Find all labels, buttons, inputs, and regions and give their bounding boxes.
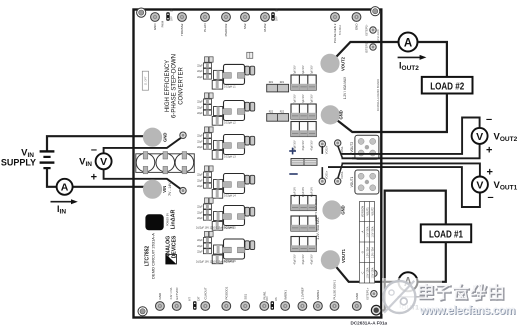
phase 3 input caps stack	[203, 133, 211, 149]
svg-text:–: –	[486, 114, 492, 126]
svg-text:22µF: 22µF	[197, 217, 203, 220]
svg-text:OFF: OFF	[266, 296, 269, 301]
inductor L3	[222, 135, 245, 159]
svg-text:-C: -C	[361, 271, 364, 274]
svg-text:ON: ON	[275, 297, 278, 301]
resistor bank R22	[267, 110, 289, 121]
svg-text:22µF: 22µF	[197, 101, 203, 104]
logo POWERED BY LINEAR	[166, 210, 176, 230]
power stage MOSFET Q6A	[214, 245, 223, 254]
ammeter IIN	[57, 179, 73, 195]
svg-text:PULSE GEN 2: PULSE GEN 2	[333, 23, 337, 43]
wire VOSNS1- stub to sense line	[338, 163, 343, 178]
power stage MOSFET Q3B	[212, 151, 223, 160]
svg-text:47µF/16V: 47µF/16V	[303, 140, 305, 150]
capacitor bank labels	[295, 187, 314, 197]
arrow IOUT1 washed by watermark	[398, 294, 427, 299]
capacitor CIN2 electrolytic	[156, 152, 175, 174]
turret VIN sense VIN	[180, 187, 186, 193]
phase 6 small caps above	[205, 231, 214, 236]
power stage MOSFET Q2B	[212, 117, 223, 126]
svg-text:47µF/16V: 47µF/16V	[311, 140, 313, 150]
svg-text:3.3V / 2.5A: 3.3V / 2.5A	[170, 287, 173, 299]
svg-text:22µF: 22µF	[197, 239, 203, 242]
svg-text:1.2VREF: 1.2VREF	[301, 287, 305, 299]
svg-text:1.5V / 25A: 1.5V / 25A	[366, 267, 369, 278]
wire LOAD 2 return to board GND terminal	[330, 94, 447, 133]
label VOUT1 meter with polarity	[487, 167, 518, 204]
wire VOSNS1+ stub to sense line	[321, 167, 323, 179]
svg-text:IMON2: IMON2	[316, 290, 320, 300]
svg-text:GND: GND	[339, 110, 344, 119]
svg-text:INT: INT	[188, 297, 191, 301]
output capacitor bank row y=236.5	[291, 237, 316, 252]
svg-text:22µF: 22µF	[197, 206, 203, 209]
svg-text:2mm JACK: 2mm JACK	[377, 29, 380, 41]
resistor bank R21	[267, 81, 289, 92]
terminal VIN	[143, 180, 162, 199]
svg-text:-A: -A	[361, 230, 364, 233]
power stage MOSFET Q5A	[214, 212, 223, 221]
svg-text:A: A	[404, 37, 412, 49]
watermark chinese text shao	[473, 286, 487, 301]
svg-text:IMON1: IMON1	[283, 290, 287, 300]
test point CLKOUT bottom	[201, 302, 210, 311]
test point TRK/SS2 top	[178, 13, 187, 22]
wire sense lines over jack	[352, 154, 380, 158]
power stage MOSFET Q1A	[214, 70, 223, 79]
svg-text:22µF: 22µF	[197, 185, 203, 188]
mounting hole bottom-right GND post	[371, 305, 381, 315]
phase 4 small caps above	[205, 166, 214, 171]
watermark halo	[382, 278, 442, 314]
svg-text:22µF: 22µF	[197, 65, 203, 68]
phase 1 small caps above	[205, 57, 214, 62]
wire board VOUT2 terminal to ammeter IOUT2	[330, 42, 399, 63]
bulk capacitor bank COUT	[291, 159, 317, 166]
inductor L2	[222, 101, 245, 125]
test point RUN1 bottom	[260, 302, 269, 311]
power stage MOSFET Q5B	[212, 222, 223, 231]
phase 3 small caps above	[205, 127, 214, 132]
svg-text:DEMO CIRCUIT 2631A-A: DEMO CIRCUIT 2631A-A	[150, 233, 155, 279]
watermark logo circle	[383, 281, 415, 313]
LOAD #1 box	[421, 224, 471, 242]
svg-text:47µF/16V: 47µF/16V	[311, 65, 313, 75]
input capacitor bank silk frame	[136, 154, 195, 173]
test point 1.2VREF bottom	[298, 302, 307, 311]
jumper PWM mode	[166, 12, 169, 21]
svg-text:22µF: 22µF	[197, 174, 203, 177]
svg-text:R22: R22	[280, 110, 285, 113]
svg-text:22µF: 22µF	[197, 250, 203, 253]
svg-text:SS1: SS1	[243, 293, 247, 299]
label VIN terminal	[162, 182, 172, 196]
wire VIN supply negative through ammeter to board VIN terminal	[47, 168, 153, 186]
test point IMON1 bottom	[281, 302, 290, 311]
svg-text:VOUT1 60A MAX: VOUT1 60A MAX	[314, 199, 318, 221]
inductor L6	[222, 239, 245, 263]
mounting hole top-right	[371, 7, 380, 16]
label VIN meter with polarity	[79, 144, 97, 184]
svg-text:7V - 14V: 7V - 14V	[168, 182, 172, 196]
svg-text:0.15µH L1: 0.15µH L1	[224, 86, 236, 89]
svg-text:-B: -B	[361, 251, 364, 254]
test point IMON2 bottom	[314, 302, 323, 311]
svg-text:47µF/16V: 47µF/16V	[295, 65, 297, 75]
svg-text:22µF: 22µF	[197, 179, 203, 182]
svg-text:50% MAX: 50% MAX	[339, 24, 342, 35]
svg-text:LOAD #2: LOAD #2	[430, 81, 464, 92]
svg-text:R22: R22	[269, 110, 274, 113]
label ISTEP2 turrets	[365, 24, 369, 53]
output capacitor bank row y=195.5	[291, 196, 316, 211]
svg-text:GND: GND	[341, 205, 346, 214]
arrow IIN	[51, 199, 78, 204]
svg-text:V: V	[476, 179, 483, 191]
power stage MOSFET Q4B	[212, 190, 223, 199]
phase 3 cap value labels	[197, 135, 203, 149]
svg-text:R21: R21	[269, 81, 274, 84]
svg-text:ISTEP1+: ISTEP1+	[365, 287, 369, 299]
svg-text:1.0V / 50A: 1.0V / 50A	[371, 226, 374, 237]
terminal GND (out2 return)	[321, 105, 340, 124]
svg-text:OFF: OFF	[276, 16, 279, 21]
svg-text:1.5V / 25A: 1.5V / 25A	[371, 267, 374, 278]
phase 5 output caps pair	[245, 207, 255, 216]
svg-text:0.15µH L2: 0.15µH L2	[224, 122, 236, 125]
test point PULSE GEN 2 top	[331, 13, 340, 22]
phase 4 output caps pair	[245, 175, 255, 184]
svg-text:R21: R21	[280, 81, 285, 84]
svg-text:A: A	[61, 182, 69, 194]
watermark chinese text fa	[455, 286, 469, 300]
svg-text:22µF: 22µF	[197, 140, 203, 143]
phase 6 cap value labels	[197, 239, 203, 253]
svg-text:+: +	[486, 145, 492, 157]
svg-text:–: –	[488, 192, 494, 204]
label EXTVCC jumper	[188, 296, 200, 301]
power stage MOSFET Q1B	[212, 80, 223, 89]
inductor L4	[222, 174, 245, 198]
capacitor bank labels	[295, 65, 314, 75]
svg-text:–: –	[91, 144, 97, 156]
phase 5 cap value labels	[197, 206, 203, 220]
svg-text:47µF/16V: 47µF/16V	[311, 94, 313, 104]
polarity plus mark	[289, 148, 296, 155]
svg-text:HIGH EFFICIENCY: HIGH EFFICIENCY	[165, 60, 171, 112]
output capacitor bank row y=216	[291, 216, 316, 231]
svg-text:VIN: VIN	[162, 186, 167, 193]
turret VOSNS1+	[319, 178, 325, 184]
test point GND bottom	[352, 302, 361, 311]
capacitor CIN3 electrolytic	[175, 152, 194, 174]
text LTC7852 DEMO CIRCUIT 2631A	[145, 233, 156, 279]
svg-text:J1 OPT: J1 OPT	[144, 76, 148, 85]
output capacitor bank row y=104	[291, 104, 316, 119]
IC U1 black package	[145, 214, 163, 230]
wire VOSNS2+ stub to sense line	[321, 146, 323, 154]
svg-text:VOUT2: VOUT2	[341, 56, 346, 71]
turret ISTEP2-	[370, 27, 376, 33]
test point GND top	[352, 13, 361, 22]
svg-text:PGOOD1: PGOOD1	[225, 286, 229, 299]
output jack J-VOUT1	[355, 170, 379, 194]
power stage MOSFET Q4A	[214, 180, 223, 189]
svg-text:47µF/16V: 47µF/16V	[311, 254, 313, 264]
label VOSNS turrets	[325, 145, 345, 179]
terminal GND (out1 return)	[322, 200, 341, 219]
svg-text:22µF: 22µF	[197, 211, 203, 214]
svg-text:47µF/16V: 47µF/16V	[295, 254, 297, 264]
output capacitor bank row y=75	[291, 75, 316, 90]
capacitor bank labels	[295, 94, 314, 104]
svg-text:POWER BY: POWER BY	[166, 213, 169, 226]
svg-text:OFF: OFF	[171, 16, 174, 21]
wire LOAD 1 bottom through ammeter IOUT1 to board VOUT1 terminal	[330, 242, 445, 282]
svg-text:LOAD #1: LOAD #1	[429, 230, 463, 241]
svg-text:www.elecfans.com: www.elecfans.com	[419, 305, 515, 317]
svg-text:22µF: 22µF	[197, 135, 203, 138]
PCB board outline DC2631A	[134, 10, 382, 318]
svg-text:+: +	[91, 172, 97, 184]
turret VIN sense GND	[180, 132, 186, 138]
test point RUN2 top	[261, 13, 270, 22]
svg-text:GND: GND	[355, 23, 359, 31]
jumper EXTVCC select	[193, 301, 196, 310]
logo ANALOG DEVICES	[165, 235, 177, 264]
svg-text:PLLIN: PLLIN	[203, 24, 207, 32]
wire ammeter IOUT2 to LOAD 2	[418, 42, 447, 77]
svg-text:CLKOUT: CLKOUT	[204, 287, 208, 299]
watermark chinese text zi	[437, 286, 451, 300]
svg-text:2x22µF 16V 1210 0.15µH SQJ14: 2x22µF 16V 1210 0.15µH SQJ140E	[196, 261, 235, 264]
svg-text:1.2V / 50A: 1.2V / 50A	[371, 247, 374, 258]
svg-text:47µF/16V: 47µF/16V	[303, 65, 305, 75]
svg-text:VOUT1: VOUT1	[366, 207, 369, 216]
phase 6 input caps stack	[203, 238, 211, 254]
turret VOSNS2+	[319, 141, 325, 147]
svg-text:VERSION: VERSION	[361, 206, 364, 217]
svg-text:GND: GND	[158, 292, 162, 300]
svg-text:1.2V / 50A: 1.2V / 50A	[366, 247, 369, 258]
phase 4 input caps stack	[203, 172, 211, 188]
svg-text:47µF/16V: 47µF/16V	[295, 94, 297, 104]
label PWM jumper	[161, 8, 174, 27]
ammeter IOUT1	[399, 272, 418, 291]
svg-text:22µF: 22µF	[197, 112, 203, 115]
svg-text:GND: GND	[163, 133, 168, 142]
terminal VOUT1	[321, 250, 340, 269]
voltmeter VIN with sense leads to board turrets	[96, 137, 182, 190]
test point GND top	[151, 13, 160, 22]
svg-text:47µF/16V: 47µF/16V	[311, 187, 313, 197]
label RUN2 jumper	[276, 8, 279, 21]
svg-text:1.0V / 50A: 1.0V / 50A	[366, 226, 369, 237]
svg-text:VOS2+: VOS2+	[325, 145, 329, 154]
phase 6 output caps pair	[245, 241, 255, 250]
svg-text:2x22µF 16V 1210 0.15µH SQJ14: 2x22µF 16V 1210 0.15µH SQJ140E	[196, 227, 235, 230]
svg-text:VOUT2: VOUT2	[350, 142, 354, 153]
wire VIN supply positive top rail to board GND terminal	[47, 136, 153, 151]
ammeter IOUT2	[399, 33, 418, 52]
svg-text:ON: ON	[171, 8, 174, 12]
test point EXTVCC bottom	[172, 302, 181, 311]
version table VOUT1/VOUT2	[360, 202, 375, 284]
svg-text:47µF/16V: 47µF/16V	[295, 140, 297, 150]
terminal VOUT2	[320, 54, 339, 73]
svg-text:PULSE GEN 1: PULSE GEN 1	[333, 279, 337, 299]
svg-text:ISTEP2-: ISTEP2-	[365, 24, 369, 35]
turret VOSNS2-	[335, 140, 341, 146]
svg-text:0.15µH L3: 0.15µH L3	[224, 156, 236, 159]
test point PLLIN top	[201, 13, 210, 22]
svg-text:V: V	[100, 156, 107, 168]
phase 1 cap value labels	[197, 65, 203, 79]
svg-text:47µF/16V: 47µF/16V	[303, 94, 305, 104]
svg-text:GND: GND	[153, 23, 157, 31]
power stage MOSFET Q2A	[214, 107, 223, 116]
svg-text:47µF/16V: 47µF/16V	[303, 254, 305, 264]
voltmeter VOUT1 with sense leads	[328, 163, 488, 207]
svg-text:22µF: 22µF	[197, 146, 203, 149]
svg-text:TRK/SS2: TRK/SS2	[180, 23, 184, 36]
svg-text:SS2: SS2	[243, 23, 247, 29]
svg-text:EXT: EXT	[197, 296, 200, 301]
svg-text:1.2V / 60A MAX: 1.2V / 60A MAX	[343, 76, 347, 99]
svg-text:EXTVCC: EXTVCC	[175, 286, 179, 299]
arrow IOUT2	[398, 55, 427, 60]
jumper RUN1 on/off	[271, 301, 274, 310]
terminal GND (input return)	[143, 128, 162, 147]
watermark chinese text dian	[421, 286, 433, 300]
svg-text:VOS1+: VOS1+	[325, 170, 329, 179]
label VIN SUPPLY	[1, 148, 36, 168]
svg-text:+: +	[487, 167, 493, 179]
capacitor bank labels	[295, 140, 314, 150]
phase 2 input caps stack	[203, 99, 211, 115]
test point PGOOD2 top	[222, 13, 231, 22]
capacitor CIN1 electrolytic	[136, 152, 155, 174]
svg-text:VOUT1: VOUT1	[341, 248, 346, 263]
board title HIGH EFFICIENCY 6-PHASE STEP-DOWN CONVERTER	[165, 54, 185, 118]
svg-text:22µF: 22µF	[197, 106, 203, 109]
svg-text:22µF: 22µF	[197, 70, 203, 73]
test point GND bottom	[156, 302, 165, 311]
tiny jack J2 top	[247, 52, 253, 58]
phase 1 output caps pair	[245, 66, 255, 75]
inductor L1	[222, 64, 245, 88]
svg-text:VOUT2: VOUT2	[371, 207, 374, 216]
output jack J-VOUT2	[355, 135, 379, 159]
test point PULSE GEN 1 bottom	[330, 302, 339, 311]
svg-text:SUPPLY: SUPPLY	[1, 158, 36, 168]
svg-text:6-PHASE STEP-DOWN: 6-PHASE STEP-DOWN	[172, 54, 178, 118]
svg-text:CONVERTER: CONVERTER	[178, 67, 184, 105]
output capacitor bank row y=121.5	[291, 122, 316, 137]
watermark chinese text you	[491, 286, 503, 300]
svg-text:LinΔAR: LinΔAR	[171, 210, 177, 230]
label RUN1 jumper	[266, 296, 278, 301]
silk marking E2 box	[142, 71, 148, 90]
turret ISTEP1-	[371, 270, 377, 276]
label VOUT2 meter with polarity	[486, 114, 518, 157]
phase 2 small caps above	[205, 93, 214, 98]
svg-text:22µF: 22µF	[197, 76, 203, 79]
mounting hole top-left	[137, 8, 146, 17]
capacitor bank labels	[295, 254, 314, 264]
svg-text:DC2631A-A DEMO BOARD: DC2631A-A DEMO BOARD	[376, 79, 380, 111]
phase 5 small caps above	[205, 198, 214, 203]
turret ISTEP2+	[370, 44, 376, 50]
svg-text:ISTEP2+: ISTEP2+	[365, 41, 369, 53]
svg-text:22µF: 22µF	[197, 245, 203, 248]
test point PGOOD1 bottom	[222, 302, 231, 311]
svg-text:0.15µH L4: 0.15µH L4	[224, 195, 236, 198]
svg-text:GND: GND	[355, 292, 359, 300]
jumper RUN2 on/off	[271, 12, 274, 21]
phase 4 cap value labels	[197, 174, 203, 188]
svg-text:VOUT1: VOUT1	[350, 176, 354, 187]
svg-text:DC2631A-A F01a: DC2631A-A F01a	[351, 321, 388, 326]
svg-text:RUN2: RUN2	[263, 23, 267, 31]
test point SS1 bottom	[241, 302, 250, 311]
wire LOAD 1 top to board bottom-right GND post	[377, 191, 446, 311]
mounting hole bottom-left	[138, 307, 147, 316]
svg-text:V: V	[476, 131, 483, 143]
power stage MOSFET Q3A	[214, 141, 223, 150]
phase 5 input caps stack	[203, 204, 211, 220]
voltmeter VOUT2 with sense leads	[342, 118, 488, 159]
label ISTEP1 turrets	[365, 268, 369, 300]
svg-text:PWM: PWM	[161, 21, 165, 27]
phase 3 output caps pair	[245, 136, 255, 145]
LOAD #2 box	[422, 77, 473, 94]
turret ISTEP1+	[371, 291, 377, 297]
inductor L5	[222, 206, 245, 230]
phase 2 cap value labels	[197, 101, 203, 115]
phase 1 input caps stack	[203, 63, 211, 79]
wire VOSNS2- stub to sense line	[338, 146, 343, 159]
svg-text:47µF/16V: 47µF/16V	[295, 187, 297, 197]
polarity minus mark	[289, 173, 297, 175]
power stage MOSFET Q6B	[212, 255, 223, 264]
phase 2 output caps pair	[245, 102, 255, 111]
test point SS2 top	[241, 13, 250, 22]
svg-text:ON: ON	[276, 8, 279, 12]
svg-text:PGOOD2: PGOOD2	[224, 23, 228, 36]
turret VOSNS1-	[335, 178, 341, 184]
battery VIN SUPPLY	[40, 151, 55, 168]
svg-text:47µF/16V: 47µF/16V	[303, 187, 305, 197]
